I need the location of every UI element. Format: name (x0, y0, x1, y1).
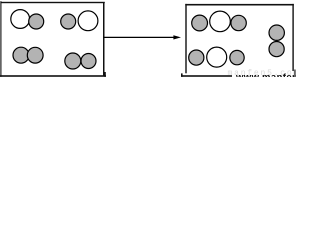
svg-text:www.manfen5.com: www.manfen5.com (235, 72, 296, 77)
